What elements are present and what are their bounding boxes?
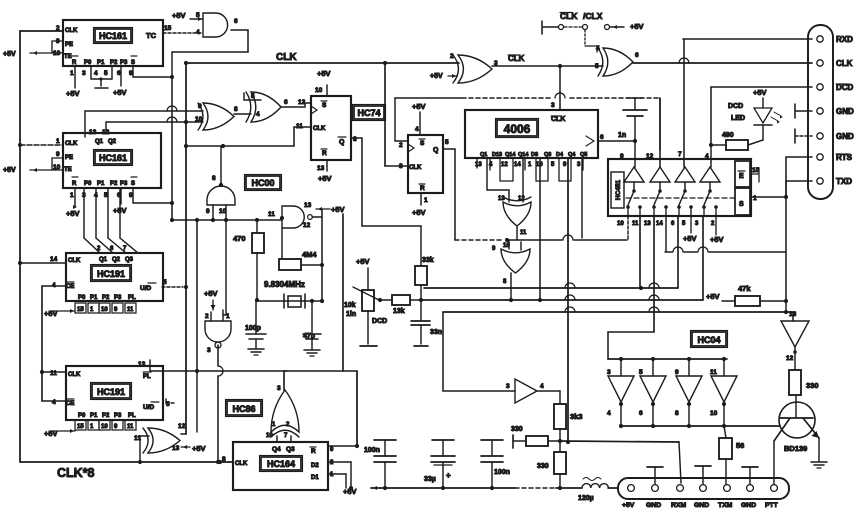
svg-text:15: 15 [164,25,172,32]
svg-text:Q14: Q14 [518,152,529,158]
svg-text:11: 11 [50,370,57,377]
svg-text:4: 4 [256,111,260,118]
svg-text:13k: 13k [393,308,405,315]
svg-text:13: 13 [475,162,482,168]
svg-text:1: 1 [70,70,74,77]
svg-text:PE: PE [65,42,73,48]
svg-text:CLK: CLK [68,372,81,378]
svg-text:P0: P0 [78,295,86,301]
svg-text:14: 14 [514,162,521,168]
svg-text:4: 4 [94,70,98,77]
svg-text:15: 15 [77,307,84,313]
svg-text:U/D: U/D [140,285,152,292]
svg-text:D4: D4 [556,152,564,158]
svg-text:D13: D13 [492,152,502,158]
svg-text:P0: P0 [78,413,86,419]
svg-text:100n: 100n [364,447,380,454]
svg-text:+5V: +5V [3,167,16,174]
svg-text:470: 470 [233,234,246,243]
svg-text:Q3: Q3 [286,446,295,453]
svg-text:P2: P2 [110,181,118,187]
svg-text:12: 12 [786,355,794,362]
svg-text:+5V: +5V [66,209,80,218]
svg-text:+5V: +5V [44,309,58,318]
svg-text:TC: TC [146,31,157,40]
svg-text:Q5: Q5 [580,152,587,158]
svg-text:HC74: HC74 [357,108,380,118]
svg-text:13: 13 [644,221,651,227]
svg-text:120µ: 120µ [578,495,594,502]
svg-text:12: 12 [518,196,525,202]
svg-text:13: 13 [317,165,325,172]
svg-text:+5V: +5V [412,102,426,111]
svg-text:13: 13 [498,196,505,202]
svg-text:9: 9 [198,103,202,110]
svg-text:P3: P3 [114,413,122,419]
svg-text:5: 5 [163,279,167,286]
svg-text:+5V: +5V [113,88,127,97]
svg-text:BD139: BD139 [784,444,807,453]
svg-text:CLK: CLK [276,52,297,63]
svg-text:9: 9 [206,208,210,215]
svg-text:CE: CE [66,284,74,290]
svg-text:U/D: U/D [143,404,155,411]
svg-text:100n: 100n [494,469,510,476]
svg-text:5: 5 [104,70,108,77]
svg-text:HC164: HC164 [267,459,295,469]
svg-text:9: 9 [675,369,679,376]
svg-text:14: 14 [656,221,663,227]
svg-text:+5V: +5V [753,88,767,97]
svg-text:PTT: PTT [765,502,779,509]
svg-text:100p: 100p [245,325,261,332]
svg-text:E: E [739,173,744,180]
svg-text:4: 4 [607,410,611,417]
svg-text:+5V: +5V [317,69,331,78]
svg-text:+5V: +5V [66,89,80,98]
svg-text:PL: PL [128,295,136,301]
svg-text:47k: 47k [738,284,751,293]
svg-text:1: 1 [70,192,74,199]
svg-text:S: S [131,60,135,66]
svg-text:CLK: CLK [551,116,565,123]
svg-text:14: 14 [50,256,58,263]
svg-text:10: 10 [710,410,718,417]
svg-text:4: 4 [415,126,419,133]
svg-text:HC04: HC04 [697,335,720,345]
svg-text:Q2: Q2 [112,257,121,263]
svg-text:R: R [311,448,316,455]
svg-text:2: 2 [205,313,209,320]
svg-text:P2: P2 [102,413,110,419]
svg-text:12: 12 [501,162,508,168]
svg-text:33k: 33k [422,257,434,264]
svg-text:CLK: CLK [65,141,78,147]
svg-text:R: R [322,150,327,157]
svg-text:R: R [72,60,77,66]
svg-text:+5V: +5V [430,73,443,80]
svg-text:HC00: HC00 [251,178,274,188]
svg-text:CLK: CLK [68,258,81,264]
svg-text:11: 11 [632,221,639,227]
svg-text:1in: 1in [346,311,356,318]
svg-text:10: 10 [266,433,273,439]
svg-text:HC191: HC191 [97,269,125,279]
svg-text:Q2: Q2 [108,139,117,145]
svg-text:7: 7 [678,151,682,158]
svg-text:P2: P2 [102,295,110,301]
svg-text:33n: 33n [430,329,442,336]
svg-text:CE: CE [66,401,74,407]
svg-text:D1: D1 [311,475,319,481]
svg-text:P2: P2 [110,60,118,66]
svg-text:12: 12 [298,99,306,106]
svg-text:P1: P1 [90,413,98,419]
svg-text:Q1: Q1 [480,152,487,158]
svg-text:P0: P0 [84,181,92,187]
svg-text:8: 8 [212,175,216,182]
svg-text:PE: PE [65,155,73,161]
svg-text:1: 1 [424,197,428,204]
svg-text:5: 5 [639,369,643,376]
svg-text:+5V: +5V [172,11,186,20]
svg-text:Q4: Q4 [568,152,576,158]
svg-text:CLK: CLK [235,461,248,467]
svg-text:LED: LED [731,115,745,122]
svg-text:D8: D8 [531,152,538,158]
svg-text:HC191: HC191 [97,387,125,397]
svg-text:10: 10 [101,424,108,430]
svg-text:8: 8 [675,410,679,417]
svg-text:4M4: 4M4 [302,250,317,259]
svg-text:+: + [446,471,451,480]
svg-text:9: 9 [620,153,624,160]
svg-text:P3: P3 [114,295,122,301]
svg-text:CLK*8: CLK*8 [57,466,95,480]
svg-text:3k3: 3k3 [570,412,583,421]
svg-text:Q14: Q14 [505,152,516,158]
svg-text:6: 6 [635,52,639,59]
svg-text:TXD: TXD [836,177,852,186]
svg-text:GND: GND [836,107,854,116]
svg-text:9.8304MHz: 9.8304MHz [264,280,305,289]
svg-text:P3: P3 [120,181,128,187]
svg-text:2: 2 [450,53,454,60]
svg-text:P3: P3 [120,60,128,66]
svg-text:13: 13 [304,202,312,209]
svg-text:+5V: +5V [710,235,724,244]
svg-text:1: 1 [226,313,230,320]
svg-text:3: 3 [277,385,281,392]
svg-text:10: 10 [195,116,203,123]
svg-text:3: 3 [82,70,86,77]
svg-text:+5V: +5V [622,502,635,509]
svg-text:13: 13 [789,311,797,318]
svg-text:RXM: RXM [671,502,686,509]
svg-text:P1: P1 [97,60,105,66]
svg-text:1: 1 [56,138,60,145]
svg-text:9: 9 [56,151,60,158]
svg-text:PL: PL [128,413,136,419]
svg-text:CLK: CLK [65,28,78,34]
svg-text:HC161: HC161 [99,31,127,41]
svg-text:4: 4 [596,45,600,52]
svg-text:+5V: +5V [706,292,720,301]
svg-text:+5V: +5V [630,22,644,31]
svg-text:6: 6 [639,410,643,417]
svg-text:Q: Q [339,139,345,146]
svg-text:GND: GND [836,132,854,141]
svg-text:10k: 10k [344,302,356,309]
svg-text:+5V: +5V [318,174,332,183]
svg-text:+5V: +5V [412,208,426,217]
svg-text:S: S [131,181,135,187]
svg-text:8: 8 [222,456,226,463]
svg-text:33µ: 33µ [424,476,436,483]
svg-text:12: 12 [178,423,186,430]
svg-text:RXD: RXD [836,35,853,44]
svg-text:1: 1 [753,195,757,202]
svg-text:Q3: Q3 [544,152,551,158]
svg-text:TE: TE [64,167,72,173]
svg-text:Q: Q [433,147,439,154]
svg-text:15: 15 [77,424,84,430]
svg-text:10: 10 [101,307,108,313]
svg-text:PL: PL [143,374,151,380]
svg-text:Q3: Q3 [125,257,134,263]
svg-text:+5V: +5V [44,429,58,438]
svg-text:4006: 4006 [504,122,531,136]
svg-text:5: 5 [595,63,599,70]
svg-text:13: 13 [89,129,97,136]
svg-text:D2: D2 [311,463,319,469]
svg-text:CLK: CLK [409,165,422,171]
svg-text:+5V: +5V [331,205,345,214]
svg-text:5: 5 [445,139,449,146]
svg-text:Q4: Q4 [272,446,281,453]
svg-text:DCD: DCD [728,103,743,110]
svg-text:4: 4 [705,153,709,160]
svg-text:12: 12 [303,222,311,229]
svg-text:Q1: Q1 [99,257,108,263]
svg-text:+5V: +5V [683,234,697,243]
svg-text:S: S [322,102,327,109]
svg-text:3: 3 [207,347,211,354]
svg-text:4: 4 [540,383,544,390]
svg-text:+5V: +5V [204,289,218,298]
svg-text:11: 11 [520,230,527,236]
svg-text:11: 11 [127,424,134,430]
svg-text:P1: P1 [90,295,98,301]
svg-text:10: 10 [315,87,323,94]
svg-text:11: 11 [268,211,275,218]
svg-text:13: 13 [172,445,180,452]
svg-text:GND: GND [694,502,709,509]
svg-text:2: 2 [399,142,403,149]
svg-text:1n: 1n [618,132,626,139]
svg-text:56: 56 [736,441,744,450]
svg-text:Q1: Q1 [95,139,104,145]
svg-text:TXM: TXM [718,502,733,509]
svg-text:/CLX: /CLX [583,11,603,21]
svg-text:330: 330 [806,381,819,390]
svg-text:+5V: +5V [192,444,206,453]
svg-text:490: 490 [722,132,734,139]
svg-text:GND: GND [646,502,661,509]
svg-text:DCD: DCD [372,318,387,325]
svg-text:S: S [739,201,744,208]
svg-text:HC86: HC86 [232,404,255,414]
svg-text:HC161: HC161 [99,153,127,163]
svg-text:HC451: HC451 [615,179,622,200]
svg-text:10: 10 [617,221,624,227]
svg-text:3: 3 [506,383,510,390]
svg-text:6: 6 [234,18,238,25]
svg-text:CLK: CLK [836,59,853,68]
svg-text:8: 8 [234,106,238,113]
svg-text:+5V: +5V [3,51,16,58]
svg-text:P0: P0 [84,60,92,66]
svg-text:5: 5 [251,93,255,100]
svg-text:CLK: CLK [313,126,326,132]
svg-text:11: 11 [127,307,134,313]
svg-text:13: 13 [138,361,146,368]
svg-text:11: 11 [710,369,717,376]
svg-text:3: 3 [551,102,555,109]
svg-text:R: R [420,185,425,192]
svg-text:R: R [72,181,77,187]
svg-text:P1: P1 [97,181,105,187]
svg-text:+5V: +5V [343,487,357,496]
svg-text:GND: GND [741,502,756,509]
svg-text:6: 6 [600,134,604,141]
svg-text:12: 12 [646,153,654,160]
svg-text:TE: TE [64,54,72,60]
svg-text:8: 8 [353,136,357,143]
svg-text:330: 330 [537,463,549,470]
svg-text:6: 6 [284,99,288,106]
svg-text:4: 4 [52,399,56,406]
svg-text:S: S [420,140,425,147]
svg-text:330: 330 [511,426,523,433]
svg-text:10: 10 [536,162,543,168]
svg-text:+5V: +5V [356,257,370,266]
svg-text:4: 4 [196,29,200,36]
svg-text:3: 3 [607,369,611,376]
